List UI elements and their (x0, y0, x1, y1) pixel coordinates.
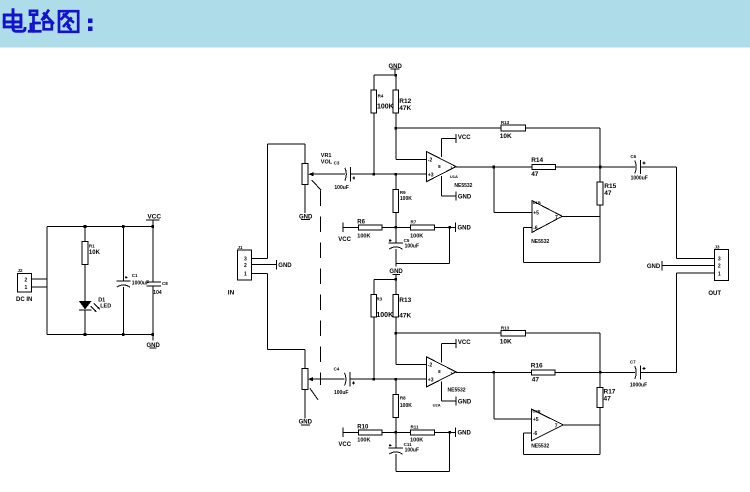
svg-text:7: 7 (555, 424, 558, 430)
svg-text:100K: 100K (357, 234, 370, 240)
svg-text:VCC: VCC (338, 442, 351, 448)
svg-text:VOL: VOL (321, 160, 333, 166)
svg-text:C7: C7 (630, 359, 636, 364)
svg-text:100K: 100K (357, 437, 370, 443)
svg-text:100K: 100K (376, 312, 393, 319)
svg-text:100uF: 100uF (334, 390, 348, 396)
svg-text:+3: +3 (428, 172, 434, 178)
svg-text:GND: GND (647, 264, 661, 270)
svg-text:1: 1 (244, 272, 247, 278)
svg-text:U2A: U2A (433, 403, 441, 408)
svg-text:GND: GND (278, 263, 292, 269)
svg-text:J2: J2 (18, 268, 24, 273)
svg-text:R6: R6 (357, 219, 365, 225)
svg-text:C8: C8 (162, 281, 168, 286)
svg-text:1000uF: 1000uF (631, 175, 648, 181)
svg-text:R10: R10 (357, 424, 369, 430)
svg-text:C5: C5 (404, 238, 410, 243)
svg-text:VCC: VCC (458, 135, 471, 141)
svg-text:1: 1 (25, 285, 28, 291)
svg-text:R13: R13 (501, 120, 510, 125)
svg-text:U1B: U1B (533, 200, 541, 205)
svg-text:2: 2 (244, 263, 247, 269)
svg-text:-2: -2 (428, 363, 433, 369)
svg-text:VCC: VCC (458, 340, 471, 346)
svg-text:GND: GND (458, 195, 472, 201)
svg-text:104: 104 (153, 290, 162, 296)
svg-text:C3: C3 (334, 160, 340, 165)
svg-text:-6: -6 (533, 431, 538, 437)
svg-text:R7: R7 (411, 219, 417, 224)
svg-text:R9: R9 (400, 190, 406, 195)
svg-text:10K: 10K (89, 250, 101, 256)
svg-text:R13: R13 (399, 297, 411, 304)
svg-text:47K: 47K (399, 312, 411, 319)
svg-text:7: 7 (555, 215, 558, 221)
svg-text:C11: C11 (404, 442, 413, 447)
svg-text:100K: 100K (377, 104, 394, 111)
svg-text:3: 3 (718, 256, 721, 262)
svg-text:47: 47 (604, 396, 612, 403)
svg-text:C6: C6 (630, 154, 636, 159)
svg-text:LED: LED (100, 304, 111, 310)
svg-text:J3: J3 (715, 245, 721, 250)
svg-text:R11: R11 (411, 424, 420, 429)
svg-text:NE5532: NE5532 (448, 388, 466, 394)
svg-text:D1: D1 (98, 297, 105, 303)
svg-text:DC IN: DC IN (16, 297, 32, 303)
svg-text:47: 47 (604, 190, 612, 197)
svg-text:R13: R13 (501, 325, 510, 330)
svg-text:GND: GND (458, 400, 472, 406)
svg-text:IN: IN (228, 290, 235, 297)
svg-text:100K: 100K (410, 437, 423, 443)
svg-text:R16: R16 (531, 363, 543, 370)
svg-text:+3: +3 (428, 377, 434, 383)
svg-text:J1: J1 (238, 245, 244, 250)
svg-text:+5: +5 (533, 417, 539, 423)
svg-text:NE5532: NE5532 (531, 239, 549, 245)
svg-text:10K: 10K (500, 338, 512, 345)
svg-text:VCC: VCC (338, 237, 351, 243)
svg-text:GND: GND (458, 226, 472, 232)
svg-text:3: 3 (244, 256, 247, 262)
svg-text:C4: C4 (334, 366, 340, 371)
svg-text:R14: R14 (531, 157, 543, 164)
svg-text:100uF: 100uF (405, 448, 419, 454)
svg-text:2: 2 (25, 277, 28, 283)
svg-text:100K: 100K (400, 403, 412, 409)
svg-text:GND: GND (458, 431, 472, 437)
svg-text:1000uF: 1000uF (630, 382, 647, 388)
svg-text:1: 1 (718, 272, 721, 278)
svg-text:R4: R4 (378, 94, 384, 99)
svg-text:NE5532: NE5532 (454, 183, 472, 189)
svg-text:100uF: 100uF (405, 244, 419, 250)
svg-text:U2B: U2B (533, 409, 541, 414)
svg-text:2: 2 (718, 263, 721, 269)
svg-text:-6: -6 (533, 226, 538, 232)
svg-text:R1: R1 (89, 244, 95, 249)
svg-text:R8: R8 (400, 395, 406, 400)
svg-text:-2: -2 (428, 158, 433, 164)
svg-text:R3: R3 (376, 296, 382, 301)
svg-text:47: 47 (532, 377, 540, 384)
svg-text:100uF: 100uF (334, 185, 348, 191)
svg-text:R17: R17 (604, 389, 616, 396)
svg-text:10K: 10K (500, 133, 512, 140)
svg-text:OUT: OUT (708, 291, 721, 297)
svg-text:47: 47 (531, 171, 539, 178)
svg-text:C1: C1 (132, 273, 138, 278)
svg-text:U1A: U1A (450, 174, 458, 179)
svg-text:100K: 100K (410, 234, 423, 240)
svg-text:47K: 47K (399, 105, 411, 112)
svg-text:100K: 100K (400, 196, 412, 202)
svg-text:NE5532: NE5532 (531, 444, 549, 450)
svg-text:+5: +5 (533, 210, 539, 216)
svg-text:1000uF: 1000uF (132, 280, 149, 286)
svg-text:VR1: VR1 (321, 153, 332, 159)
